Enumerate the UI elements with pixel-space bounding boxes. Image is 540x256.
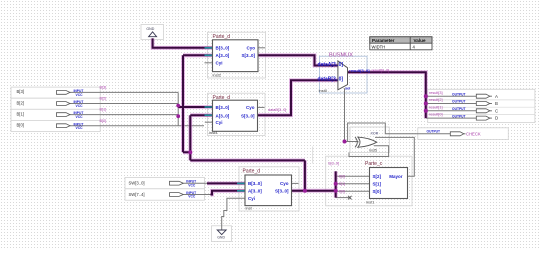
input pin SW[7..4] (129, 191, 197, 199)
bbox block U3 Parte_d inst (239, 167, 299, 211)
wire input B[3] (70, 91, 178, 93)
bbox GND top (141, 25, 164, 40)
svg-text:VCC: VCC (188, 183, 196, 187)
wire dangling with X (336, 197, 350, 199)
wire SW[3..0] pin stub (183, 182, 207, 184)
svg-text:Cyo: Cyo (280, 181, 289, 186)
wire result tap A (426, 95, 477, 97)
svg-text:OUTPUT: OUTPUT (452, 107, 466, 111)
svg-text:VCC: VCC (76, 104, 84, 108)
wire xor output to Mayor (375, 137, 414, 176)
bbox input pin B[2] (11, 98, 100, 109)
svg-text:A: A (495, 94, 498, 99)
wire U3 Cyi to bottom ground (222, 198, 245, 230)
wire input B[1] (70, 114, 178, 116)
wire result tap D (426, 117, 477, 119)
output pin A (429, 91, 498, 99)
svg-text:S[1]: S[1] (373, 181, 382, 186)
svg-text:Cyo: Cyo (246, 105, 255, 110)
svg-text:Value: Value (414, 38, 426, 43)
xor extra back arc (355, 137, 357, 147)
wire Cyo stub U3 (292, 182, 299, 184)
svg-text:GND: GND (146, 27, 154, 31)
svg-text:GND: GND (217, 236, 225, 240)
ground top (149, 32, 157, 37)
svg-text:VCC: VCC (76, 126, 84, 130)
svg-text:inst0: inst0 (319, 88, 328, 93)
node result3 (424, 94, 428, 98)
input pin B[2] (17, 97, 107, 108)
svg-text:B[3..0]: B[3..0] (216, 45, 230, 50)
wire Cyo stub U2 (258, 106, 265, 108)
svg-text:result[0]: result[0] (429, 113, 443, 117)
wire output B stub (490, 103, 492, 105)
wire S[1] tap (336, 183, 370, 185)
svg-text:OUTPUT: OUTPUT (452, 114, 466, 118)
svg-text:inst5: inst5 (369, 149, 377, 153)
svg-text:Cyo: Cyo (246, 45, 255, 50)
wire node to CHECK output (348, 123, 451, 142)
svg-text:B[3]: B[3] (100, 86, 107, 90)
wire S[2] tap (336, 175, 370, 177)
svg-text:B[3]: B[3] (17, 89, 24, 94)
svg-text:Parte_d: Parte_d (243, 168, 261, 174)
wire output D stub (490, 117, 492, 119)
svg-text:dataB[3..0]: dataB[3..0] (268, 108, 286, 112)
bbox Parte_c inst1 (326, 156, 412, 206)
node S1 tap (334, 182, 338, 186)
svg-text:BUSMUX: BUSMUX (329, 53, 353, 59)
svg-text:B[1]: B[1] (17, 111, 24, 116)
svg-text:S[0]: S[0] (373, 189, 382, 194)
wire S[0] tap (336, 190, 370, 192)
svg-text:dataB[3..0]: dataB[3..0] (318, 77, 344, 83)
node sel/xor (343, 140, 347, 144)
svg-text:A[3..0]: A[3..0] (248, 188, 262, 193)
input pin B[3] (17, 86, 107, 97)
svg-text:result[2]: result[2] (429, 98, 443, 102)
X mark on dangling wire (348, 196, 352, 200)
svg-text:WIDTH: WIDTH (372, 44, 386, 49)
faint vertical line artifact (312, 147, 314, 164)
output pin CHECK (427, 130, 481, 137)
output pin D (429, 113, 498, 121)
input pin B[0] (17, 119, 107, 130)
svg-text:B[1]: B[1] (100, 108, 107, 112)
bbox input pin B[1] (11, 109, 100, 120)
output pin B (429, 98, 498, 106)
node S bus corner (303, 189, 307, 193)
svg-text:S[3..0]: S[3..0] (241, 114, 255, 119)
bbox output pins A-D (428, 89, 535, 122)
svg-text:SW[7..4]: SW[7..4] (129, 192, 145, 197)
wire input B[0] (70, 125, 204, 127)
svg-text:inst: inst (246, 205, 253, 210)
svg-text:VCC: VCC (188, 195, 196, 199)
svg-text:result[3..0]: result[3..0] (372, 69, 390, 73)
node result1 (424, 109, 428, 113)
svg-text:A[3..0]: A[3..0] (216, 53, 230, 58)
svg-text:VCC: VCC (76, 93, 84, 97)
wire output A stub (490, 95, 492, 97)
svg-text:SW[3..0]: SW[3..0] (129, 181, 145, 186)
svg-text:Mayor: Mayor (389, 174, 403, 179)
teal port stubs at block bus ports (205, 48, 246, 191)
svg-text:inst4: inst4 (209, 130, 218, 135)
node S0 tap (334, 189, 338, 193)
node join1 (176, 104, 180, 108)
wire input B[2] (70, 103, 178, 105)
node join2 (176, 114, 180, 118)
wire xor lower loop (349, 146, 389, 157)
svg-text:OUTPUT: OUTPUT (427, 130, 441, 134)
svg-text:Parte_c: Parte_c (365, 161, 383, 167)
bbox input pin SW[3..0] (125, 177, 204, 188)
bbox block U2 Parte_d inst4 (208, 93, 266, 135)
svg-text:B: B (495, 101, 498, 106)
bbox input pin SW[7..4] (125, 189, 204, 200)
bbox input pin B[0] (11, 120, 100, 131)
svg-text:B[3..0]: B[3..0] (248, 181, 262, 186)
bbox output pin CHECK (418, 128, 509, 140)
svg-text:result[1]: result[1] (429, 105, 443, 109)
bbox input pin B[3] (11, 87, 100, 98)
wire CHECK stub (464, 133, 466, 135)
svg-text:D: D (495, 116, 498, 121)
svg-text:S[2]: S[2] (339, 175, 345, 179)
bbox block U1 Parte_d inst2 (208, 32, 266, 78)
wire node to xor input (345, 141, 359, 143)
wire Cyi stub U1 (205, 62, 213, 64)
svg-text:sel: sel (345, 86, 350, 90)
svg-text:Cyi: Cyi (216, 60, 223, 65)
svg-text:B[3..0]: B[3..0] (216, 105, 230, 110)
svg-text:CHECK: CHECK (466, 132, 481, 137)
svg-text:Parameter: Parameter (372, 38, 395, 43)
xor body (358, 137, 377, 147)
wire mux sel down to node (344, 88, 346, 141)
node result2 (424, 102, 428, 106)
svg-text:A[3..0]: A[3..0] (216, 114, 230, 119)
wire Cyo stub U1 (258, 47, 265, 49)
bbox XOR gate (350, 127, 389, 153)
svg-text:result[3]: result[3] (429, 91, 443, 95)
svg-text:S[1]: S[1] (339, 182, 345, 186)
svg-text:Cyi: Cyi (248, 196, 255, 201)
svg-text:Parte_d: Parte_d (213, 34, 231, 40)
svg-text:inst2: inst2 (213, 73, 222, 78)
svg-text:B[2]: B[2] (100, 97, 107, 101)
output pin C (429, 105, 498, 113)
svg-text:dataA[3..0]: dataA[3..0] (318, 62, 344, 68)
svg-text:S[2]: S[2] (373, 174, 382, 179)
svg-text:result[3..0]: result[3..0] (349, 68, 370, 73)
ground bottom (217, 230, 226, 235)
bbox GND bottom (212, 226, 232, 242)
svg-text:S[3..0]: S[3..0] (241, 53, 255, 58)
wire output C stub (490, 110, 492, 112)
svg-text:B[0]: B[0] (100, 119, 107, 123)
wire result tap B (426, 103, 477, 105)
wire SW[7..4] pin stub (183, 194, 210, 196)
input pin SW[3..0] (129, 180, 197, 188)
bbox busmux (pale blue) (320, 56, 368, 93)
svg-text:B[0]: B[0] (17, 123, 24, 128)
node feedback branch (188, 150, 192, 154)
svg-text:OUTPUT: OUTPUT (452, 92, 466, 96)
svg-text:C: C (495, 108, 498, 113)
svg-text:XOR: XOR (371, 132, 379, 136)
wire result tap C (426, 110, 477, 112)
svg-text:VCC: VCC (76, 115, 84, 119)
svg-text:S[3..0]: S[3..0] (328, 161, 339, 165)
wire Cyi stub U2 (205, 121, 213, 123)
svg-text:Cyi: Cyi (216, 120, 223, 125)
svg-text:OUTPUT: OUTPUT (452, 100, 466, 104)
svg-text:S[3..0]: S[3..0] (275, 188, 289, 193)
svg-text:S[0]: S[0] (339, 190, 345, 194)
separators in output pin group (428, 100, 535, 115)
input pin B[1] (17, 108, 107, 119)
wire vertical join of input pins (177, 92, 179, 125)
svg-text:B[2]: B[2] (17, 100, 24, 105)
svg-text:inst1: inst1 (366, 199, 375, 204)
